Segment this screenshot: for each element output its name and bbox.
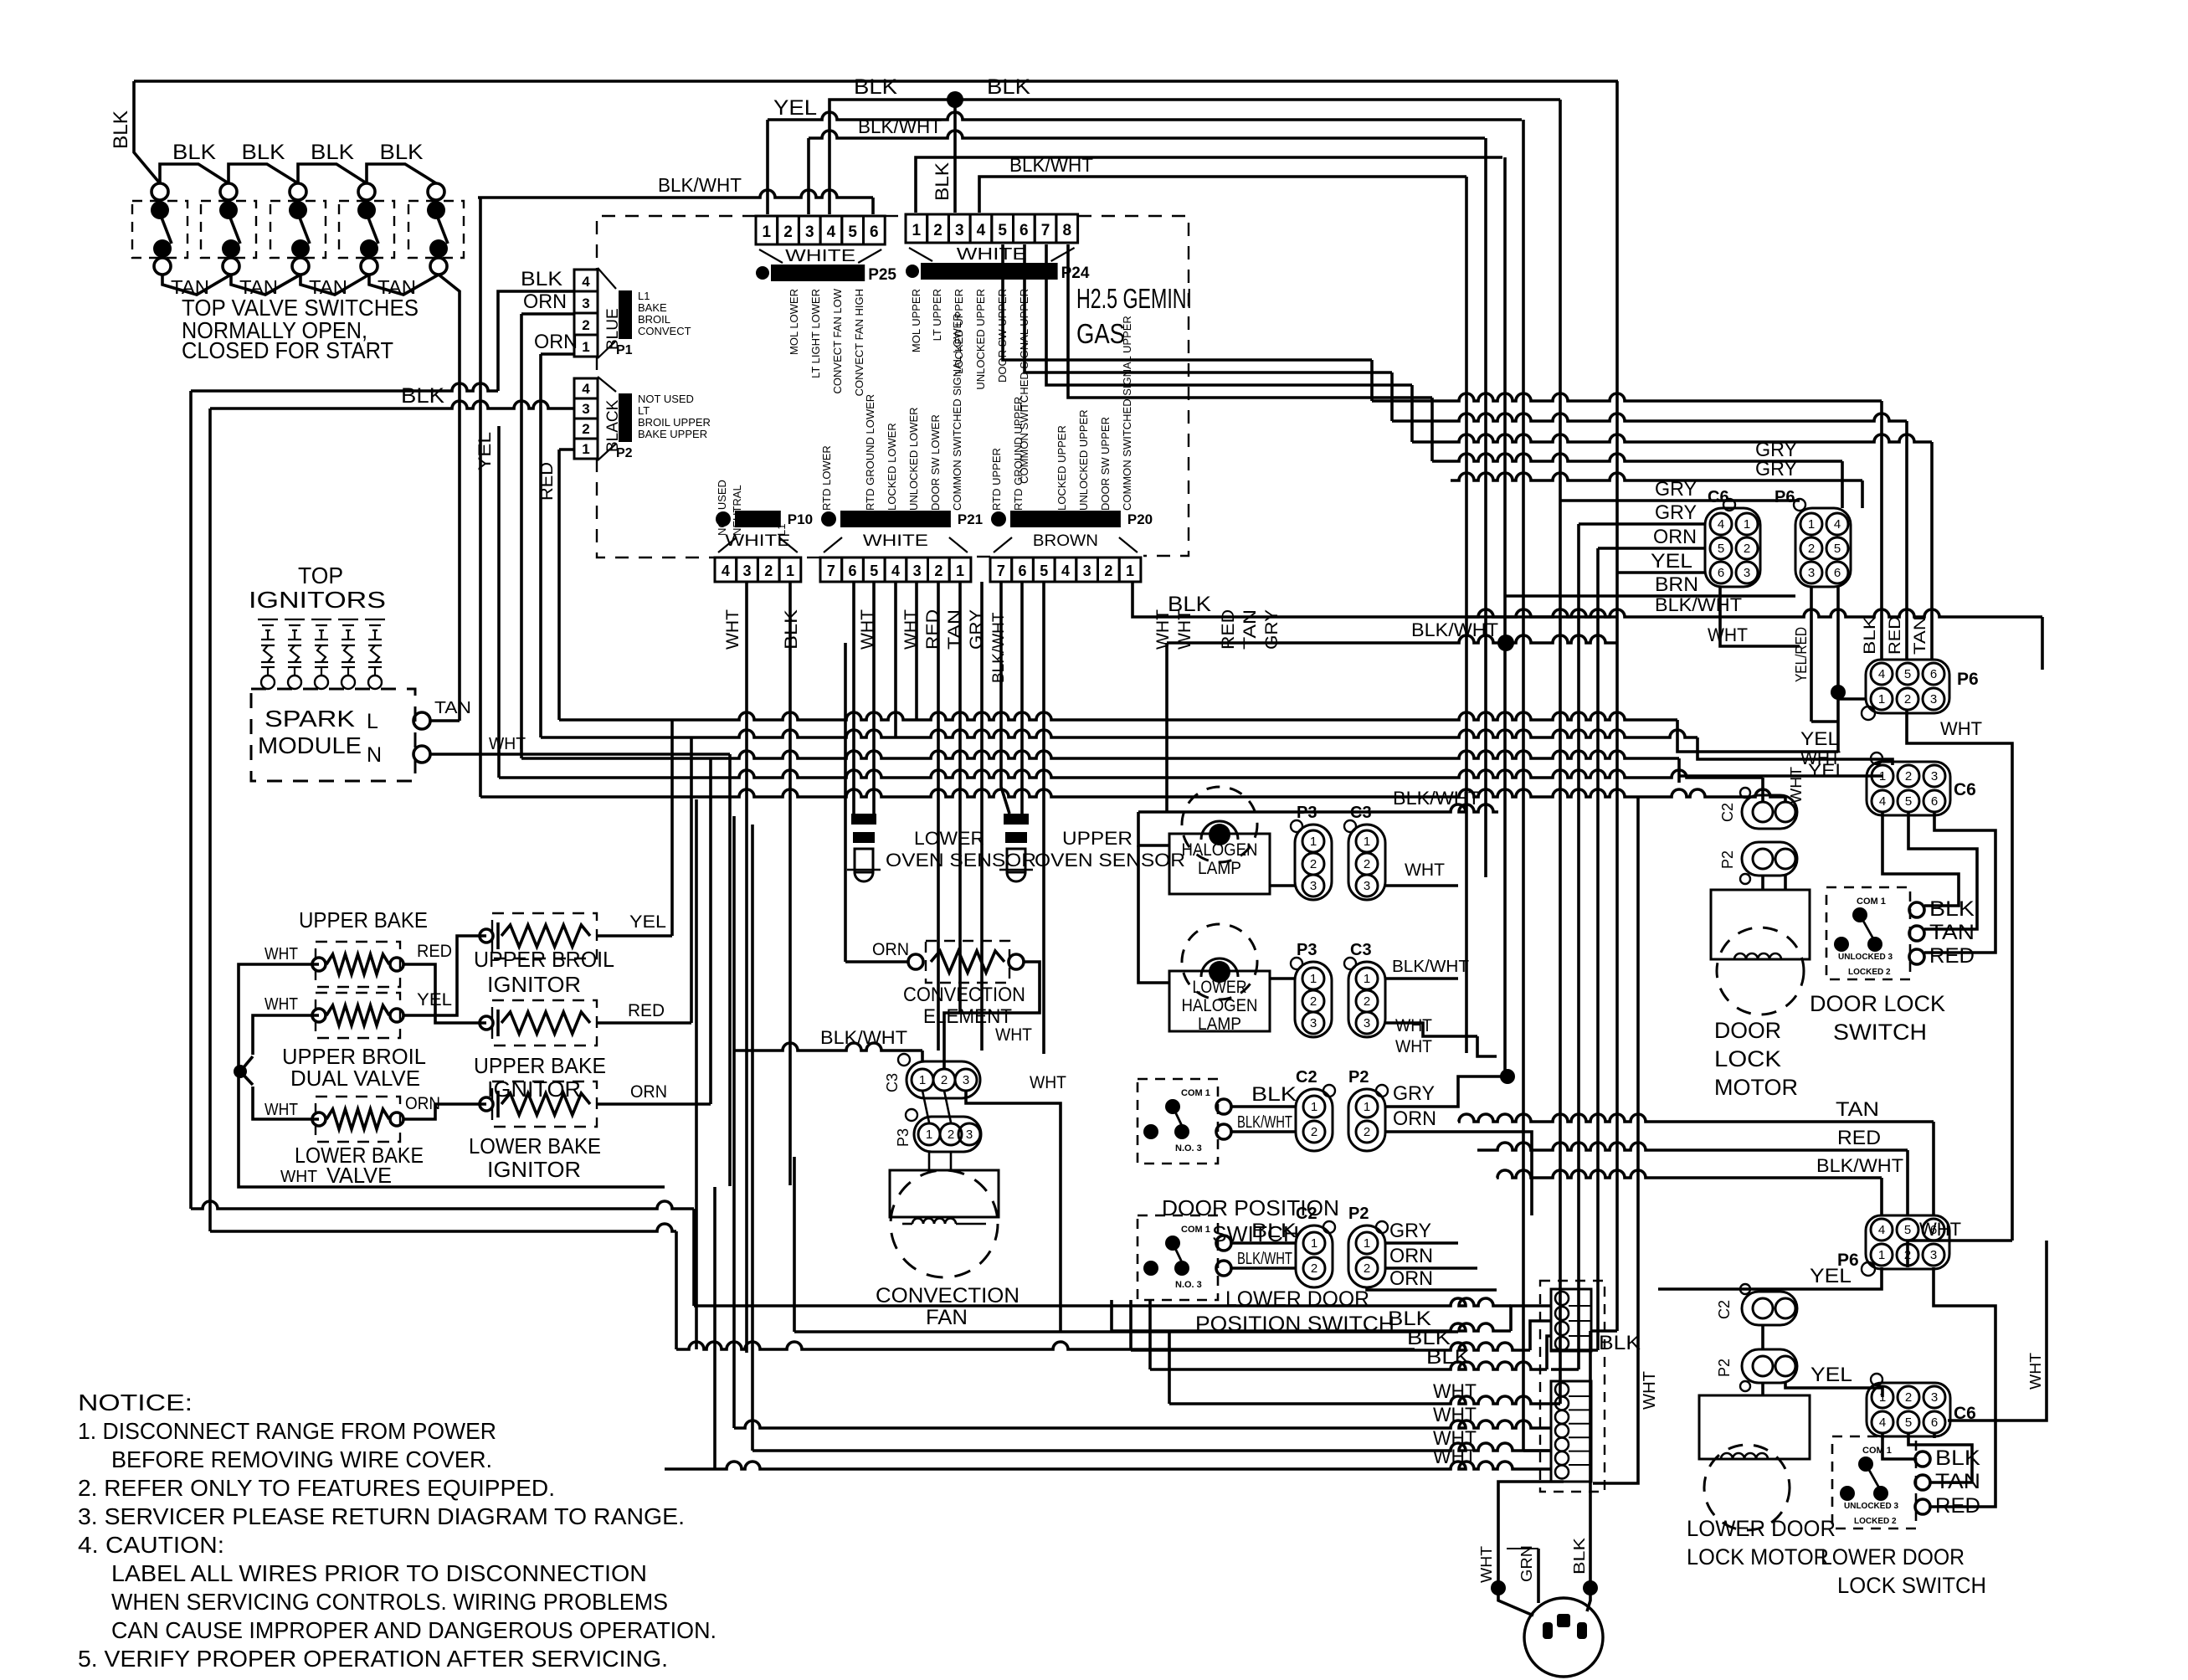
connector C3 of halogen lamp [1348, 825, 1385, 900]
svg-text:BLK/WHT: BLK/WHT [1816, 1155, 1903, 1176]
wire BLK from top bus down to switch 1 [134, 81, 160, 183]
svg-text:WHT: WHT [1708, 624, 1748, 645]
svg-text:WHITE: WHITE [785, 247, 855, 265]
svg-text:HALOGEN: HALOGEN [1182, 996, 1258, 1015]
svg-text:5: 5 [1718, 542, 1724, 556]
svg-text:NEUTRAL: NEUTRAL [731, 485, 743, 536]
wire bundle row 3 to C6 YEL [521, 751, 1679, 758]
top ignitor symbols [258, 619, 278, 620]
svg-text:2: 2 [1744, 542, 1750, 556]
wire YEL row from bundle row 1 [1677, 720, 1838, 752]
wire WHT common left side of valves [239, 964, 665, 1187]
svg-text:4: 4 [1061, 563, 1070, 579]
svg-text:C2: C2 [1716, 1300, 1733, 1319]
svg-text:3: 3 [1364, 879, 1370, 893]
svg-text:UPPER BAKE: UPPER BAKE [299, 907, 428, 932]
connector P3 of lower halogen lamp [1295, 962, 1332, 1037]
svg-text:LOCKED UPPER: LOCKED UPPER [1055, 425, 1068, 511]
connector P21 (7 pin) on control bottom edge [820, 557, 842, 582]
UPPER BROIL DUAL VALVE [312, 1009, 326, 1022]
svg-text:TAN: TAN [1836, 1098, 1879, 1121]
connector P25 (6 pin) on control top edge [756, 216, 778, 244]
svg-text:1. DISCONNECT RANGE FROM POWER: 1. DISCONNECT RANGE FROM POWER [78, 1418, 496, 1444]
svg-text:N.O. 3: N.O. 3 [1175, 1280, 1202, 1290]
wire C6h2 pin5 to lower TAN terminal [1908, 1433, 1972, 1482]
svg-text:BEFORE REMOVING WIRE COVER.: BEFORE REMOVING WIRE COVER. [111, 1446, 492, 1472]
LOWER DOOR POSITION SWITCH [1138, 1215, 1218, 1300]
wire YEL from upper broil valve to upper broil ignitor [404, 936, 486, 1015]
wire GRY from P2 pin 1 [1385, 1076, 1507, 1107]
svg-text:3: 3 [955, 222, 964, 239]
connector C2 (lower door lock) [1742, 1292, 1797, 1325]
svg-text:WHEN SERVICING CONTROLS. WIRIN: WHEN SERVICING CONTROLS. WIRING PROBLEMS [111, 1589, 668, 1615]
svg-text:WHT: WHT [1478, 1546, 1495, 1583]
svg-text:2: 2 [1364, 994, 1370, 1009]
svg-text:LOCK MOTOR: LOCK MOTOR [1687, 1544, 1829, 1570]
svg-text:CONVECTION: CONVECTION [903, 984, 1025, 1006]
svg-text:C2: C2 [1719, 803, 1736, 822]
wire ORN from lower P2 pin 2 [1385, 1266, 1477, 1270]
wire BLK link between switch tops [160, 164, 229, 183]
svg-text:2: 2 [1905, 1390, 1912, 1405]
svg-text:3: 3 [966, 1128, 973, 1142]
UPPER BAKE IGNITOR [480, 1016, 493, 1030]
wire GRN to power cord [1537, 1549, 1540, 1603]
wire C6h pin5 to TAN terminal [1908, 812, 1977, 929]
svg-text:CLOSED FOR START: CLOSED FOR START [182, 337, 393, 363]
svg-text:NOT USED: NOT USED [716, 480, 728, 536]
svg-text:BLK: BLK [1599, 1332, 1641, 1354]
wire bus line 5 to P24 pin 1 [916, 157, 1502, 213]
svg-text:N: N [367, 743, 382, 767]
svg-text:BLK/WHT: BLK/WHT [1655, 594, 1742, 615]
wire RED vertical to upper bake ignitor [690, 737, 693, 1023]
svg-text:BLK/WHT: BLK/WHT [1009, 154, 1093, 176]
svg-text:GRY: GRY [1755, 458, 1797, 480]
wire C6h pin6 to RED terminal [1924, 812, 1995, 953]
wire BLK/WHT to C2 pin2 [1231, 1130, 1296, 1133]
wire WHT from convection element [944, 962, 1040, 1069]
svg-text:C6: C6 [1954, 780, 1976, 799]
svg-text:IGNITORS: IGNITORS [249, 587, 386, 613]
svg-text:1: 1 [1311, 1100, 1317, 1114]
wire ORN from lower bake valve to lower bake ignitor [404, 1104, 486, 1119]
wire YEL into C6h pin 1 [1679, 774, 1882, 778]
wire vertical bundle mid [497, 426, 501, 778]
wire C6h pin4 to BLK terminal [1882, 812, 1959, 906]
svg-text:3: 3 [1310, 879, 1317, 893]
connector P24 (8 pin) on control top edge [906, 214, 927, 243]
svg-text:6: 6 [1930, 667, 1937, 681]
trunk vertical 2 [1484, 138, 1487, 877]
svg-text:4: 4 [582, 381, 590, 397]
svg-text:3: 3 [805, 223, 814, 241]
svg-text:BLK: BLK [1426, 1346, 1470, 1369]
svg-text:P24: P24 [1061, 265, 1090, 282]
connector P6 (horizontal, upper) [1866, 660, 1949, 713]
wire ORN from P2 pin 2 [1385, 1132, 1532, 1215]
upper terminal strip [1551, 1289, 1591, 1351]
wire GRY into C6 pin 4 [1560, 499, 1800, 502]
svg-text:P2: P2 [1348, 1205, 1369, 1223]
svg-text:LOWER DOOR: LOWER DOOR [1687, 1516, 1836, 1541]
svg-text:RTD GROUND LOWER: RTD GROUND LOWER [864, 394, 876, 511]
svg-text:LT UPPER: LT UPPER [931, 289, 943, 341]
svg-text:5: 5 [1905, 794, 1912, 809]
trunk vertical 8 [1615, 81, 1619, 1331]
svg-text:BLK: BLK [401, 384, 444, 408]
connector P2 of lower door position switch [1348, 1225, 1385, 1287]
lower door lock switch terminal RED [1915, 1499, 1930, 1514]
svg-text:YEL/RED: YEL/RED [1793, 627, 1810, 682]
wire TAN link between switch bottoms [231, 275, 300, 295]
svg-text:BLK: BLK [1168, 593, 1211, 616]
svg-text:WHT: WHT [1395, 1016, 1432, 1035]
connector C6 (horizontal upper) [1867, 762, 1950, 815]
svg-text:BLK/WHT: BLK/WHT [1237, 1113, 1292, 1132]
svg-text:6: 6 [1019, 563, 1027, 579]
svg-text:4: 4 [582, 274, 590, 290]
wire BLK into P6h pin 4 [1880, 401, 1883, 660]
svg-text:LOWER DOOR: LOWER DOOR [1821, 1544, 1965, 1570]
top valve switch 1 [152, 183, 168, 200]
UPPER BROIL IGNITOR [480, 929, 493, 943]
connector C3 of convection fan [907, 1061, 980, 1098]
svg-text:5: 5 [870, 563, 878, 579]
wire WHT vertical to valve bottom line [728, 754, 732, 1186]
svg-text:LAMP: LAMP [1198, 859, 1241, 878]
svg-text:YEL: YEL [1810, 1265, 1852, 1287]
svg-text:LOWER: LOWER [1193, 978, 1247, 997]
connector C3 of lower halogen lamp [1348, 962, 1385, 1037]
wire ORN into convection element [845, 960, 908, 963]
wire WHT from spark module N [430, 753, 730, 756]
svg-text:1: 1 [1879, 1390, 1886, 1405]
control board dashed outline with H2.5 GEMINI GAS label [597, 216, 756, 270]
svg-text:C2: C2 [1296, 1205, 1317, 1223]
svg-text:1: 1 [763, 223, 772, 241]
svg-text:WHT: WHT [1919, 1219, 1961, 1240]
svg-text:3. SERVICER PLEASE RETURN DIAG: 3. SERVICER PLEASE RETURN DIAGRAM TO RAN… [78, 1503, 685, 1529]
svg-text:3: 3 [1930, 1248, 1937, 1262]
svg-text:P6: P6 [1957, 670, 1979, 689]
wire TAN into P6h pin 6 [1930, 442, 1934, 660]
wire WHT bottom 0 [1168, 1332, 1171, 1404]
wire TAN below P21 [958, 582, 962, 1013]
wire from fan enclosure bottom to right [1061, 1330, 1458, 1333]
svg-text:LOCK SWITCH: LOCK SWITCH [1837, 1573, 1986, 1598]
wire WHT from C3 pin 3 lamp1 [1385, 884, 1458, 887]
svg-text:4: 4 [977, 222, 986, 239]
svg-text:BLK: BLK [311, 141, 354, 164]
spark module dashed box [251, 689, 415, 781]
svg-text:1: 1 [1364, 835, 1370, 849]
wire TAN from switch 5 down to spark module L [439, 275, 460, 721]
convection fan enclosure [793, 1157, 796, 1332]
svg-text:7: 7 [997, 563, 1005, 579]
svg-text:7: 7 [1041, 222, 1050, 239]
wire WHT into P6h2 pin 2 [1908, 1241, 2012, 1267]
svg-text:3: 3 [743, 563, 752, 579]
wire YEL from P2 to C6h2 pin 1 [1785, 1383, 1882, 1397]
svg-text:2: 2 [1310, 994, 1317, 1009]
svg-text:GRN: GRN [1518, 1545, 1535, 1582]
connector C2 of lower door position switch [1296, 1225, 1333, 1287]
svg-text:GAS: GAS [1076, 318, 1125, 349]
wire bundle row 4 to C2 [499, 770, 1763, 778]
connector C2 of door position switch [1296, 1089, 1333, 1151]
wire GRY below P21 [980, 582, 984, 1051]
svg-text:RED: RED [537, 462, 557, 501]
svg-text:BLK: BLK [1251, 1083, 1297, 1106]
svg-text:HALOGEN: HALOGEN [1182, 840, 1258, 860]
svg-text:8: 8 [1062, 222, 1071, 239]
wire BLK to C2 pin1 [1231, 1105, 1296, 1108]
svg-text:LT: LT [638, 404, 650, 417]
svg-text:H2.5 GEMINI: H2.5 GEMINI [1076, 283, 1192, 314]
svg-text:CAN CAUSE IMPROPER AND DANGERO: CAN CAUSE IMPROPER AND DANGEROUS OPERATI… [111, 1617, 716, 1643]
svg-text:4: 4 [827, 223, 836, 241]
svg-text:2: 2 [1104, 563, 1112, 579]
svg-text:P2: P2 [1716, 1359, 1733, 1377]
svg-text:YEL: YEL [475, 432, 495, 470]
svg-text:C2: C2 [1296, 1068, 1317, 1087]
wire ORN into P1 pin 3 [521, 312, 574, 316]
connector P3 of halogen lamp [1295, 825, 1332, 900]
svg-text:WHITE: WHITE [863, 532, 928, 550]
trunk vertical 1 [1465, 177, 1468, 1053]
CONVECTION ELEMENT [908, 954, 923, 969]
svg-text:6: 6 [1931, 1415, 1938, 1430]
wire YEL into P6h2 pin 1 [1658, 1267, 1882, 1289]
svg-text:RED: RED [417, 942, 452, 961]
svg-text:CONVECT FAN HIGH: CONVECT FAN HIGH [853, 289, 865, 396]
svg-text:BLK: BLK [380, 141, 424, 164]
wire BLK/WHT mid with junction dot [1167, 635, 1617, 643]
connector P2 (lower door lock) [1742, 1349, 1797, 1383]
svg-text:ORN: ORN [1389, 1245, 1433, 1267]
svg-text:BROIL UPPER: BROIL UPPER [638, 416, 711, 429]
svg-text:UNLOCKED LOWER: UNLOCKED LOWER [907, 407, 920, 511]
trunk vertical 3 [1503, 157, 1507, 1076]
svg-text:UPPER: UPPER [1062, 828, 1133, 849]
svg-text:COM 1: COM 1 [1181, 1088, 1210, 1098]
svg-text:NOTICE:: NOTICE: [78, 1390, 193, 1415]
wire BLK into P1 pin 4 [498, 291, 574, 391]
door lock switch terminal RED [1909, 949, 1924, 964]
crossing horizontal row E GRY to P6 [1451, 473, 1862, 480]
junction dot on BLK/WHT [1497, 634, 1514, 651]
wire vertical BLK left inner [208, 408, 212, 1231]
svg-text:3: 3 [1930, 692, 1937, 706]
wire BLK/WHT from C3 pin 1 lamp2 [1385, 977, 1458, 980]
connector P20 (7 pin) on control bottom edge [990, 557, 1012, 582]
wire verticals down to upper oven sensor [1001, 582, 1009, 814]
wire vertical YEL of left bundle [479, 198, 482, 797]
svg-text:C6: C6 [1708, 488, 1729, 506]
crossing horizontal row A to P6h BLK [1372, 393, 1882, 401]
svg-text:UPPER BROIL: UPPER BROIL [474, 947, 614, 972]
wire YEL row from bundle row 3 [1677, 758, 1681, 783]
feeders from P24 to crossing rows [1003, 244, 1372, 360]
wire BLK link between switch tops [229, 164, 298, 183]
wire WHT from P6h pin 2 down right [1907, 710, 2012, 1241]
svg-text:P25: P25 [868, 266, 896, 284]
connector P2 (upper door lock) [1742, 842, 1797, 876]
svg-text:LT LIGHT LOWER: LT LIGHT LOWER [809, 289, 822, 378]
svg-text:WHT: WHT [489, 735, 526, 753]
svg-text:L1: L1 [775, 524, 788, 536]
svg-text:BLK/WHT: BLK/WHT [658, 174, 742, 196]
svg-text:6: 6 [1020, 222, 1029, 239]
wire bundle row 2 to door lock WHT [541, 730, 1697, 737]
svg-text:BLK: BLK [1862, 616, 1879, 655]
wire bundle row 1 to door lock YEL [559, 712, 1677, 720]
svg-text:WHT: WHT [1395, 1037, 1432, 1056]
svg-text:DOOR: DOOR [1714, 1018, 1781, 1043]
wire BLK bus into P2 pin 3 [210, 401, 574, 408]
svg-text:ORN: ORN [523, 290, 567, 313]
svg-text:MOL LOWER: MOL LOWER [788, 289, 800, 355]
svg-text:1: 1 [1808, 517, 1815, 532]
svg-text:2: 2 [1310, 857, 1317, 871]
svg-text:RTD LOWER: RTD LOWER [820, 445, 833, 511]
svg-text:BLK: BLK [1929, 897, 1975, 921]
svg-text:4: 4 [1879, 1415, 1886, 1430]
svg-text:P2: P2 [1348, 1068, 1369, 1087]
wire RED below P21 [937, 582, 940, 1051]
wire BLK top bus line 1 [134, 80, 1618, 83]
svg-text:GRY: GRY [1389, 1220, 1431, 1242]
node junction dot on BLK bus [947, 91, 963, 108]
wire BLK bottom 1 [1110, 1300, 1113, 1331]
wire vertical RED of left bundle from P2 pin 1 [559, 448, 574, 451]
svg-text:LOCKED LOWER: LOCKED LOWER [886, 423, 898, 511]
svg-text:SWITCH: SWITCH [1833, 1020, 1927, 1045]
svg-text:GRY: GRY [1393, 1082, 1435, 1105]
wire BLK/WHT to convection fan C3 pin 1 [733, 1043, 922, 1051]
wire long vertical right of terminal strips [1593, 797, 1638, 1483]
svg-text:YEL: YEL [1810, 1364, 1852, 1386]
svg-text:OVEN SENSOR: OVEN SENSOR [886, 850, 1036, 871]
top valve switch 2 [220, 183, 237, 200]
svg-text:BLK: BLK [242, 141, 285, 164]
wire ORN into P1 pin 1 [541, 352, 574, 356]
svg-text:1: 1 [1310, 835, 1317, 849]
wire C3 to P3 links [922, 1091, 929, 1123]
svg-text:3: 3 [582, 295, 589, 311]
wire C6h2 pin6 stub [1933, 1433, 1936, 1438]
wire BLK link between switch tops [367, 164, 436, 183]
svg-text:FAN: FAN [926, 1306, 968, 1329]
wire BLK bus line 2 to P25 pin 4 [829, 100, 1560, 214]
wire ORN vertical to lower bake ignitor [709, 758, 712, 1104]
svg-text:5: 5 [1905, 1415, 1912, 1430]
svg-text:RED: RED [1837, 1127, 1881, 1149]
svg-text:2: 2 [1904, 692, 1911, 706]
svg-text:4. CAUTION:: 4. CAUTION: [78, 1532, 224, 1558]
wire WHT under C6 [1720, 587, 1800, 646]
svg-text:4: 4 [1718, 517, 1724, 532]
svg-text:WHT: WHT [1940, 718, 1982, 739]
wire ORN extra [1367, 1287, 1497, 1290]
svg-text:MOTOR: MOTOR [1714, 1075, 1798, 1100]
svg-text:6: 6 [849, 563, 857, 579]
svg-text:TAN: TAN [1929, 921, 1975, 944]
svg-text:BLK: BLK [1935, 1446, 1980, 1470]
svg-text:4: 4 [1879, 794, 1886, 809]
svg-text:3: 3 [1364, 1016, 1370, 1030]
wire GRY into C6 pin 5 row [1579, 522, 1705, 526]
wire GRY from lower P2 pin 1 [1385, 1241, 1458, 1245]
svg-text:IGNITOR: IGNITOR [487, 1157, 581, 1182]
svg-text:5. VERIFY PROPER OPERATION AFT: 5. VERIFY PROPER OPERATION AFTER SERVICI… [78, 1646, 668, 1672]
wire WHT below P20 [1042, 582, 1045, 1054]
wire TAN link between switch bottoms [300, 275, 369, 295]
LOWER BAKE VALVE [312, 1112, 326, 1126]
wire row 2 feeder from P21 pin 4 [894, 582, 897, 737]
LOWER BAKE IGNITOR [480, 1097, 493, 1111]
wire into P6h pin 1 from junction [1838, 697, 1866, 701]
spark module terminal N [413, 746, 430, 763]
svg-text:DOOR LOCK: DOOR LOCK [1810, 991, 1945, 1016]
DOOR LOCK SWITCH dashed box [1826, 887, 1910, 979]
svg-text:BLK/WHT: BLK/WHT [1237, 1250, 1292, 1268]
connector C6 (vertical, door lock) [1705, 508, 1760, 587]
lower door lock switch terminal BLK [1915, 1451, 1930, 1467]
svg-text:2: 2 [582, 421, 589, 437]
wire RED from upper bake valve to upper bake ignitor [404, 964, 486, 1023]
svg-text:COM 1: COM 1 [1862, 1446, 1892, 1456]
wire WHT bottom 3 [665, 1462, 1551, 1469]
wire YEL ignitor 1 right side [598, 934, 672, 938]
lower terminal strip [1551, 1381, 1591, 1482]
connector P6 (vertical, door lock) [1795, 508, 1851, 587]
svg-text:2: 2 [1905, 769, 1912, 783]
svg-text:WHT: WHT [1433, 1380, 1477, 1403]
wire WHT bottom 1 [734, 1421, 1551, 1428]
svg-text:RTD GROUND UPPER: RTD GROUND UPPER [1012, 397, 1025, 511]
wire BLK bottom 2 [1129, 1300, 1133, 1350]
svg-text:1: 1 [1878, 692, 1885, 706]
wire RED ignitor 2 right side [598, 1021, 691, 1025]
svg-text:3: 3 [1083, 563, 1091, 579]
LOWER DOOR LOCK MOTOR [1699, 1395, 1810, 1459]
svg-text:COM 1: COM 1 [1857, 897, 1886, 907]
svg-text:LOWER BAKE: LOWER BAKE [469, 1133, 601, 1159]
svg-text:GRY: GRY [1655, 478, 1697, 501]
LOWER DOOR LOCK SWITCH dashed box [1832, 1436, 1916, 1528]
svg-text:P3: P3 [895, 1128, 912, 1147]
crossing horizontal row B to P6h RED [1392, 414, 1907, 421]
svg-text:BLK: BLK [521, 268, 562, 290]
svg-text:WHT: WHT [1433, 1446, 1477, 1468]
svg-text:5: 5 [998, 222, 1007, 239]
svg-text:DUAL VALVE: DUAL VALVE [290, 1066, 420, 1091]
svg-text:2: 2 [948, 1128, 954, 1142]
wire BLK to power cord [1589, 1331, 1592, 1588]
door lock switch terminal BLK [1909, 902, 1924, 917]
svg-text:LOCKED 2: LOCKED 2 [1854, 1517, 1897, 1526]
svg-text:1: 1 [912, 222, 922, 239]
wire BLK vertical from junction dot to P24 pin 3 [953, 100, 957, 213]
svg-text:4: 4 [1834, 517, 1841, 532]
wire loop bottom line from left vertical 228 [191, 1201, 694, 1209]
svg-text:1: 1 [1744, 517, 1750, 532]
svg-text:RED: RED [1929, 944, 1975, 968]
svg-text:BAKE: BAKE [638, 301, 667, 314]
wire from P6h2 pin 3 to lower switch RED [1930, 1267, 1995, 1507]
